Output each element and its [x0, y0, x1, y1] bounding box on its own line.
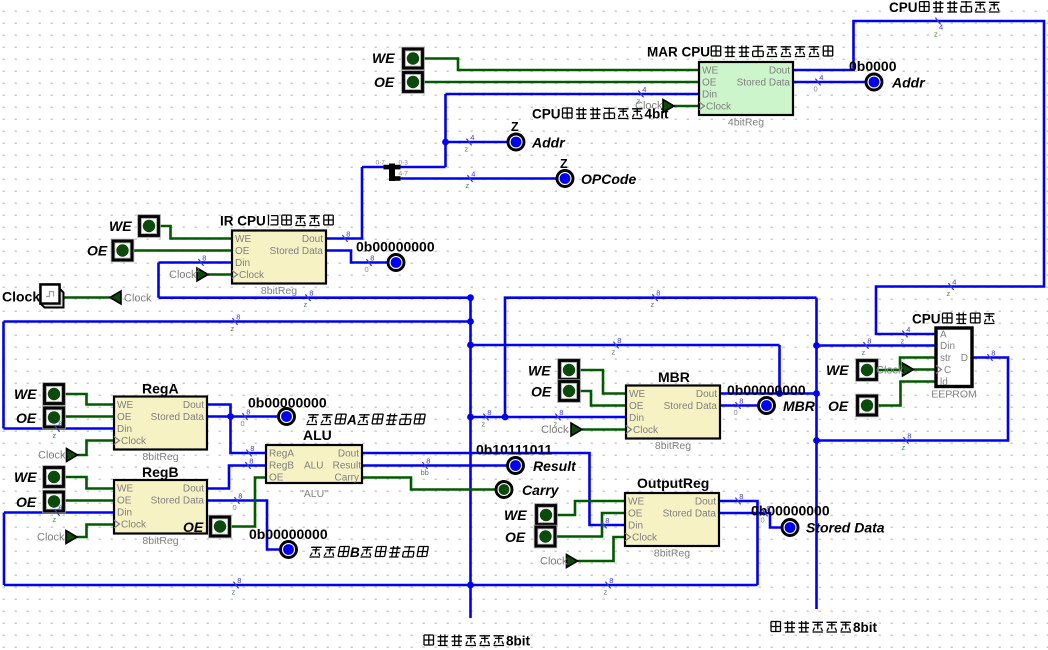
- wire RegB clock: [77, 525, 114, 538]
- annotation MBR Din segA: [483, 414, 488, 421]
- output pin probe OPCode: [557, 171, 573, 187]
- svg-text:8: 8: [867, 336, 871, 345]
- wire ALU Dout to OutputReg Din: [362, 453, 625, 525]
- svg-text:OE: OE: [374, 74, 395, 90]
- svg-text:z: z: [934, 30, 938, 39]
- svg-text:Dout: Dout: [338, 449, 359, 460]
- wire RegA Din: [4, 427, 115, 430]
- svg-text:OE: OE: [269, 473, 284, 484]
- annotation RegB to ALU: [245, 462, 250, 469]
- output pin probe Result: [508, 458, 524, 474]
- wire RegB Dout to ALU: [207, 466, 266, 489]
- input pin OE (IR): [113, 241, 132, 260]
- output pin probe Carry: [496, 482, 512, 498]
- junction RegA stored x230: [227, 413, 234, 420]
- wire OutputReg OE: [555, 513, 625, 537]
- wire splitter input segment: [362, 166, 386, 169]
- svg-text:8: 8: [246, 407, 250, 416]
- wire MAR Dout to external address bus: [791, 21, 1044, 334]
- wire RegB Stored Data to probe: [207, 501, 280, 550]
- wire bottom bus y585: [4, 584, 758, 587]
- svg-text:OE: OE: [117, 412, 132, 423]
- junction MBR Dout x816: [813, 390, 820, 397]
- input pin OE (OutputReg): [536, 527, 555, 546]
- svg-text:D: D: [961, 353, 968, 364]
- svg-text:WE: WE: [528, 363, 551, 379]
- annotation RegA Din: [54, 425, 59, 432]
- svg-text:RegB: RegB: [269, 461, 294, 472]
- wire RegB OE: [64, 499, 114, 502]
- svg-text:z: z: [232, 588, 236, 597]
- svg-text:8: 8: [609, 576, 613, 585]
- svg-text:8bitReg: 8bitReg: [654, 548, 690, 560]
- annotation MBR Din segB: [555, 414, 560, 421]
- wire external bus vertical x816: [815, 298, 818, 609]
- svg-text:z: z: [231, 324, 235, 333]
- input pin OE (MBR): [560, 382, 579, 401]
- svg-text:"ALU": "ALU": [300, 488, 328, 500]
- svg-text:WE: WE: [826, 362, 849, 378]
- svg-text:Din: Din: [628, 521, 643, 532]
- annotation MAR Din: [638, 91, 643, 98]
- svg-text:0: 0: [233, 503, 237, 512]
- svg-text:8: 8: [346, 229, 350, 238]
- svg-text:0: 0: [365, 265, 369, 274]
- wire IR OE: [132, 249, 232, 252]
- svg-text:z: z: [604, 588, 608, 597]
- svg-text:Addr: Addr: [531, 135, 566, 151]
- svg-text:Clock: Clock: [37, 532, 65, 544]
- input pin WE (RegA): [45, 385, 64, 404]
- register IR 8bitReg: [232, 231, 326, 284]
- svg-text:B: B: [350, 545, 360, 560]
- svg-text:z: z: [53, 431, 57, 440]
- svg-text:4: 4: [471, 169, 475, 178]
- wire x779 vertical to MBR Dout: [778, 345, 781, 394]
- svg-text:Dout: Dout: [696, 389, 717, 400]
- svg-text:8: 8: [370, 253, 374, 262]
- wire MBR OE: [578, 391, 626, 406]
- wire RegA WE: [64, 394, 114, 405]
- svg-text:WE: WE: [372, 50, 395, 66]
- svg-text:Stored Data: Stored Data: [737, 78, 791, 89]
- svg-text:Clock: Clock: [876, 365, 904, 377]
- output pin probe OutputReg stored: [782, 520, 798, 536]
- svg-text:4: 4: [642, 85, 646, 94]
- svg-text:Dout: Dout: [769, 66, 790, 77]
- svg-text:Addr: Addr: [891, 75, 926, 91]
- svg-text:OE: OE: [531, 384, 552, 400]
- wire RegA Stored Data to probe: [207, 415, 278, 418]
- svg-text:8bitReg: 8bitReg: [142, 535, 178, 547]
- wire MBR clock: [582, 428, 626, 431]
- output pin probe Addr (4bit): [508, 134, 524, 150]
- annotation MBR stored wire: [735, 402, 740, 409]
- wire left vertical to RegA Din: [2, 322, 5, 429]
- ALU U1 box: [266, 445, 362, 483]
- annotation D loop y440: [903, 437, 908, 444]
- svg-text:RegA: RegA: [142, 381, 179, 397]
- svg-text:4-7: 4-7: [399, 171, 409, 178]
- tunnel Clock to MAR: [663, 100, 674, 113]
- svg-text:RegB: RegB: [142, 464, 179, 480]
- tunnel Clock to RegA: [67, 449, 78, 462]
- annotation OutputReg Dout: [735, 498, 740, 505]
- svg-text:CPU: CPU: [889, 0, 918, 15]
- svg-text:Result: Result: [533, 458, 577, 474]
- label internal data bus 8bit: [424, 635, 434, 645]
- svg-text:8: 8: [656, 289, 660, 298]
- svg-text:0b00000000: 0b00000000: [356, 239, 435, 255]
- output pin probe MBR stored: [759, 398, 775, 414]
- clock source component: [41, 285, 60, 304]
- svg-text:OE: OE: [183, 519, 204, 535]
- wire OutputReg clock: [578, 537, 626, 561]
- svg-text:8: 8: [249, 456, 253, 465]
- svg-text:ld: ld: [940, 377, 948, 388]
- svg-text:MBR: MBR: [658, 369, 690, 385]
- svg-text:Clock: Clock: [121, 520, 147, 531]
- register MAR 4bitReg: [699, 62, 793, 115]
- svg-text:8: 8: [487, 408, 491, 417]
- input pin WE (MAR): [404, 49, 423, 68]
- svg-text:8: 8: [559, 408, 563, 417]
- annotation RegA to ALU: [246, 450, 251, 457]
- wire y345 internal-MBR link: [471, 344, 780, 347]
- annotation top address bus y21: [935, 18, 940, 25]
- annotation IR stored wire: [366, 259, 371, 266]
- register OutputReg 8bitReg: [625, 493, 719, 546]
- annotation IR Dout: [342, 235, 347, 242]
- wire ALU Carry to probe: [362, 478, 495, 490]
- svg-text:z: z: [612, 348, 616, 357]
- svg-text:z: z: [947, 289, 951, 298]
- svg-text:Dout: Dout: [302, 234, 323, 245]
- svg-text:z: z: [304, 300, 308, 309]
- svg-text:OE: OE: [628, 509, 643, 520]
- annotation RegB Din: [54, 509, 59, 516]
- svg-text:Z: Z: [560, 157, 568, 171]
- svg-text:8: 8: [237, 576, 241, 585]
- wire RegA clock: [78, 441, 115, 456]
- annotation EEPROM D wire: [987, 354, 992, 361]
- wire internal bus vertical x470: [469, 298, 472, 618]
- svg-text:Clock: Clock: [540, 556, 568, 568]
- svg-text:0b00000000: 0b00000000: [249, 526, 328, 542]
- svg-text:Carry: Carry: [522, 482, 560, 498]
- output pin probe RegB stored: [281, 542, 297, 558]
- svg-text:8bit: 8bit: [853, 620, 878, 635]
- svg-text:8: 8: [58, 419, 62, 428]
- svg-text:8: 8: [739, 492, 743, 501]
- wire RegB Din: [4, 511, 114, 514]
- wire splitter out bits0-3: [398, 166, 446, 169]
- svg-text:Dout: Dout: [183, 484, 204, 495]
- annotation MAR stored wire: [815, 79, 820, 86]
- svg-text:Stored Data: Stored Data: [151, 412, 205, 423]
- svg-text:ALU: ALU: [303, 427, 332, 443]
- svg-text:OE: OE: [16, 410, 37, 426]
- wire Addr probe branch: [446, 141, 508, 144]
- annotation Result wire: [422, 462, 427, 469]
- input pin WE (OutputReg): [537, 506, 556, 525]
- svg-text:C: C: [944, 365, 951, 376]
- junction MBR Din x470: [467, 414, 474, 421]
- svg-text:Stored Data: Stored Data: [806, 520, 885, 536]
- svg-text:Stored Data: Stored Data: [664, 401, 718, 412]
- input pin OE (RegB): [45, 492, 64, 511]
- svg-text:WE: WE: [629, 389, 645, 400]
- svg-text:Carry: Carry: [335, 473, 359, 484]
- svg-text:Clock: Clock: [38, 450, 66, 462]
- svg-text:0b10111011: 0b10111011: [476, 442, 553, 458]
- svg-text:Z: Z: [511, 120, 519, 134]
- wire MAR Din bus segment: [446, 93, 700, 96]
- svg-text:8: 8: [991, 348, 995, 357]
- register RegA 8bitReg: [114, 397, 207, 450]
- svg-text:z: z: [482, 420, 486, 429]
- svg-text:WE: WE: [109, 218, 132, 234]
- wire EEPROM D loop: [817, 358, 1009, 441]
- svg-text:Clock: Clock: [632, 533, 658, 544]
- label RegA test output: [306, 415, 318, 425]
- label RegB test output: [310, 547, 322, 557]
- annotation external bus y298: [652, 294, 657, 301]
- output pin probe MAR Addr: [866, 74, 882, 90]
- svg-text:MBR: MBR: [783, 398, 816, 414]
- annotation RegB stored wire: [234, 497, 239, 504]
- svg-text:4: 4: [470, 133, 474, 142]
- svg-text:OE: OE: [87, 243, 108, 259]
- junction EEPROM Din x816: [813, 342, 820, 349]
- annotation OPCode wire: [467, 175, 472, 182]
- annotation RegA stored wire: [242, 413, 247, 420]
- annotation OutputReg stored wire: [762, 510, 767, 517]
- input pin OE (EEPROM): [858, 396, 877, 415]
- svg-text:WE: WE: [117, 400, 133, 411]
- input pin WE (RegB): [45, 468, 64, 487]
- svg-text:8bitReg: 8bitReg: [261, 285, 297, 297]
- wire OutputReg WE: [555, 501, 625, 515]
- output pin probe IR stored: [388, 255, 404, 271]
- wire IR Dout up to splitter: [326, 167, 362, 239]
- junction Addr branch: [442, 139, 449, 146]
- wire MBR Din bus y417: [471, 416, 627, 419]
- svg-text:z: z: [651, 300, 655, 309]
- svg-text:EEPROM: EEPROM: [931, 389, 977, 401]
- svg-text:z: z: [554, 420, 558, 429]
- svg-text:z: z: [53, 515, 57, 524]
- svg-text:z: z: [465, 145, 469, 154]
- svg-text:z: z: [902, 443, 906, 452]
- wire IR Stored Data to probe: [326, 251, 387, 263]
- svg-text:8: 8: [236, 312, 240, 321]
- svg-text:WE: WE: [117, 484, 133, 495]
- svg-text:4bitReg: 4bitReg: [728, 117, 764, 129]
- wire internal bus y321: [4, 320, 471, 323]
- svg-text:Stored Data: Stored Data: [151, 496, 205, 507]
- svg-text:IR CPU: IR CPU: [220, 214, 266, 229]
- junction y345 x470: [467, 342, 474, 349]
- svg-text:A: A: [346, 413, 357, 428]
- wire MBR Stored Data to probe: [720, 404, 758, 407]
- wire MAR clock: [674, 105, 699, 108]
- output pin probe RegA stored: [279, 409, 295, 425]
- svg-text:0-7: 0-7: [376, 160, 386, 167]
- annotation internal bus y298: [305, 294, 310, 301]
- svg-text:8: 8: [309, 289, 313, 298]
- wire MAR OE: [423, 81, 699, 84]
- svg-text:Clock: Clock: [2, 289, 40, 305]
- wire EEPROM Din branch: [817, 344, 937, 347]
- svg-text:Din: Din: [117, 508, 132, 519]
- junction bus y321 x470: [467, 318, 474, 325]
- svg-text:8: 8: [58, 503, 62, 512]
- svg-text:8: 8: [250, 444, 254, 453]
- svg-text:Stored Data: Stored Data: [663, 509, 717, 520]
- wire IR Din vertical: [157, 263, 160, 298]
- svg-text:A: A: [940, 330, 947, 341]
- svg-text:0b0000: 0b0000: [849, 58, 897, 74]
- input pin WE (MBR): [560, 361, 579, 380]
- svg-text:0: 0: [734, 408, 738, 417]
- svg-text:WE: WE: [235, 234, 251, 245]
- annotation IR Din: [198, 259, 203, 266]
- svg-text:8: 8: [202, 253, 206, 262]
- svg-text:WE: WE: [702, 66, 718, 77]
- svg-text:Dout: Dout: [183, 400, 204, 411]
- wire ALU OE input: [230, 478, 267, 527]
- wire EEPROM OE to ld: [876, 382, 936, 406]
- svg-text:Clock: Clock: [124, 293, 152, 305]
- label external data bus 8bit: [771, 622, 781, 632]
- wire EEPROM clock: [914, 368, 937, 371]
- wire splitter out bits4-7 to OPCode: [398, 177, 556, 180]
- svg-text:Clock: Clock: [633, 425, 659, 436]
- svg-text:bb: bb: [421, 468, 429, 477]
- tunnel Clock to OutputReg: [567, 555, 578, 568]
- svg-text:Clock: Clock: [121, 436, 147, 447]
- wire EEPROM WE to str: [876, 358, 936, 371]
- svg-text:z: z: [862, 348, 866, 357]
- input pin WE (IR): [140, 217, 159, 236]
- annotation EEPROM A wire: [902, 331, 907, 338]
- svg-text:4: 4: [952, 277, 956, 286]
- svg-text:0: 0: [241, 419, 245, 428]
- junction bus y298 x470: [467, 294, 474, 301]
- svg-text:8: 8: [617, 336, 621, 345]
- junction x779 MBR Dout: [776, 390, 783, 397]
- tunnel Clock (source, pointing left): [110, 291, 121, 304]
- svg-text:OE: OE: [235, 246, 250, 257]
- svg-text:8: 8: [766, 504, 770, 513]
- svg-text:8bitReg: 8bitReg: [142, 451, 178, 463]
- annotation OutputReg Din: [601, 522, 606, 529]
- tunnel Clock to MBR: [571, 423, 582, 436]
- svg-text:WE: WE: [14, 469, 37, 485]
- svg-text:OE: OE: [702, 78, 717, 89]
- svg-text:Din: Din: [117, 424, 132, 435]
- wire IR WE: [158, 226, 232, 239]
- tunnel Clock to EEPROM: [903, 363, 914, 376]
- svg-text:OE: OE: [16, 494, 37, 510]
- wire MAR Din vertical to splitter: [444, 94, 447, 167]
- svg-text:Clock: Clock: [706, 102, 732, 113]
- svg-text:Clock: Clock: [169, 269, 197, 281]
- wire left vertical RegB to y585: [3, 513, 6, 586]
- svg-text:8: 8: [739, 396, 743, 405]
- svg-text:0-3: 0-3: [399, 160, 409, 167]
- junction D wire x816: [813, 437, 820, 444]
- wire OutputReg Stored Data to probe: [719, 513, 782, 528]
- svg-text:z: z: [466, 181, 470, 190]
- wire IR Din: [159, 261, 233, 264]
- tunnel Clock to RegB: [66, 531, 77, 544]
- svg-text:4: 4: [939, 23, 943, 32]
- svg-text:str: str: [940, 353, 952, 364]
- wire ALU Result to probe: [362, 464, 507, 467]
- splitter 8bit to 4+4: [389, 164, 395, 182]
- wire MBR WE: [578, 370, 626, 394]
- svg-text:OE: OE: [629, 401, 644, 412]
- svg-text:8: 8: [426, 456, 430, 465]
- svg-text:z: z: [901, 337, 905, 346]
- annotation y345 link: [613, 342, 618, 349]
- input pin OE (RegA): [45, 408, 64, 427]
- wire MBR Dout: [720, 392, 817, 395]
- svg-text:4: 4: [906, 325, 910, 334]
- svg-text:8: 8: [605, 516, 609, 525]
- svg-text:Din: Din: [629, 413, 644, 424]
- svg-text:4bit: 4bit: [645, 107, 670, 122]
- svg-text:WE: WE: [504, 507, 527, 523]
- svg-text:OE: OE: [117, 496, 132, 507]
- annotation Addr wire: [466, 139, 471, 146]
- svg-text:8bit: 8bit: [506, 634, 531, 649]
- wire IR clock: [208, 273, 232, 276]
- wire RegA OE: [64, 415, 114, 418]
- register RegB 8bitReg: [114, 480, 207, 534]
- svg-text:Result: Result: [333, 461, 362, 472]
- svg-text:4: 4: [819, 73, 823, 82]
- svg-text:MAR CPU: MAR CPU: [647, 45, 710, 60]
- svg-text:Clock: Clock: [239, 270, 265, 281]
- EEPROM U2 CPU external memory box: [936, 328, 972, 387]
- wire OutputReg Dout down to y585: [719, 501, 758, 585]
- wire clock source to tunnel: [64, 296, 111, 299]
- svg-text:OutputReg: OutputReg: [637, 475, 709, 491]
- annotation internal bus y321: [232, 318, 237, 325]
- svg-text:OPCode: OPCode: [581, 171, 636, 187]
- wire internal bus y298: [159, 296, 471, 299]
- svg-text:WE: WE: [14, 386, 37, 402]
- svg-text:OE: OE: [828, 398, 849, 414]
- svg-text:8bitReg: 8bitReg: [655, 440, 691, 452]
- svg-text:8: 8: [907, 431, 911, 440]
- svg-text:Din: Din: [702, 90, 717, 101]
- svg-text:WE: WE: [628, 497, 644, 508]
- svg-text:Din: Din: [940, 341, 955, 352]
- svg-text:0: 0: [761, 516, 765, 525]
- svg-text:CPU: CPU: [912, 312, 941, 327]
- svg-text:Din: Din: [235, 258, 250, 269]
- junction y585 x470: [467, 582, 474, 589]
- annotation EEPROM Din wire: [863, 342, 868, 349]
- svg-text:0: 0: [814, 85, 818, 94]
- wire MAR Stored Data to probe: [791, 81, 865, 84]
- svg-text:Stored Data: Stored Data: [270, 246, 324, 257]
- wire MAR WE: [423, 59, 699, 71]
